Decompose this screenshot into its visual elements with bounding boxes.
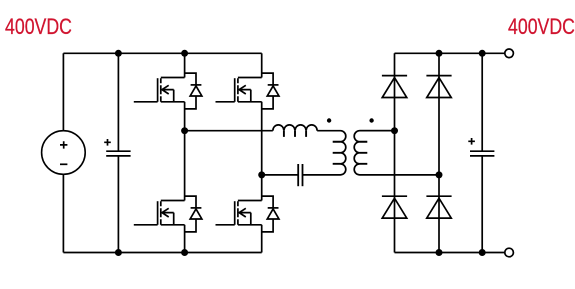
wire Q2 source to node B bbox=[261, 102, 263, 175]
node A leg1 midpoint bbox=[181, 127, 188, 134]
wire T1 primary bottom to Cr bbox=[303, 174, 341, 176]
node bottom rail / C1 bbox=[115, 249, 122, 256]
transformer T1 secondary winding bbox=[354, 131, 394, 175]
wire Q1 drain bbox=[184, 53, 186, 77]
diode D2 bbox=[426, 76, 451, 98]
transistor Q2 bbox=[216, 73, 279, 109]
node bottom rail / leg1 bbox=[181, 249, 188, 256]
label 400VDC output bbox=[508, 14, 575, 40]
capacitor Cr resonant bbox=[298, 164, 302, 186]
T1 secondary polarity dot bbox=[369, 118, 373, 122]
node B leg2 midpoint bbox=[258, 171, 265, 178]
inductor Lr bbox=[273, 125, 317, 137]
T1 primary polarity dot bbox=[327, 118, 331, 122]
wire Q2 drain bbox=[261, 53, 263, 77]
wire Q1 source to node A bbox=[184, 102, 186, 131]
wire Q4 drain bbox=[261, 175, 263, 201]
transistor Q4 bbox=[216, 196, 279, 232]
wire bottom rail input bbox=[63, 252, 261, 254]
transformer T1 primary winding bbox=[317, 131, 346, 175]
wire left top bbox=[62, 53, 64, 130]
wire top rail output bbox=[395, 52, 506, 54]
diode D3 bbox=[382, 196, 407, 218]
label 400VDC input bbox=[5, 14, 72, 40]
wire T1 secondary top to rectifier bbox=[360, 130, 395, 132]
node secondary top / left leg bbox=[391, 127, 398, 134]
node bottom rail / C2 bbox=[479, 249, 486, 256]
output terminal - bbox=[505, 248, 514, 257]
wire node A to inductor bbox=[185, 130, 273, 132]
wire Q3 drain bbox=[184, 131, 186, 201]
node top rail / leg1 bbox=[181, 50, 188, 57]
node top rail / C2 bbox=[479, 50, 486, 57]
diode D4 bbox=[426, 196, 451, 218]
wire left bottom bbox=[62, 174, 64, 252]
capacitor C2 output bulk bbox=[468, 53, 494, 252]
wire bottom rail output bbox=[395, 252, 506, 254]
wire top rail input bbox=[63, 52, 261, 54]
wire T1 secondary bottom to rectifier bbox=[360, 174, 440, 176]
wire rectifier right leg bbox=[438, 53, 440, 252]
node top rail / right leg bbox=[436, 50, 443, 57]
transistor Q3 bbox=[134, 196, 202, 232]
node top rail / C1 bbox=[115, 50, 122, 57]
node secondary bottom / right leg bbox=[436, 171, 443, 178]
transistor Q1 bbox=[134, 73, 202, 109]
wire rectifier left leg bbox=[394, 53, 396, 252]
node bottom rail / right leg bbox=[436, 249, 443, 256]
capacitor C1 input bulk bbox=[104, 53, 130, 252]
output terminal + bbox=[505, 49, 514, 58]
diode D1 bbox=[382, 76, 407, 98]
wire Q4 source bbox=[261, 225, 263, 253]
voltage source V1 bbox=[42, 131, 86, 175]
wire Cr to node B bbox=[262, 174, 299, 176]
wire Q3 source bbox=[184, 225, 186, 253]
